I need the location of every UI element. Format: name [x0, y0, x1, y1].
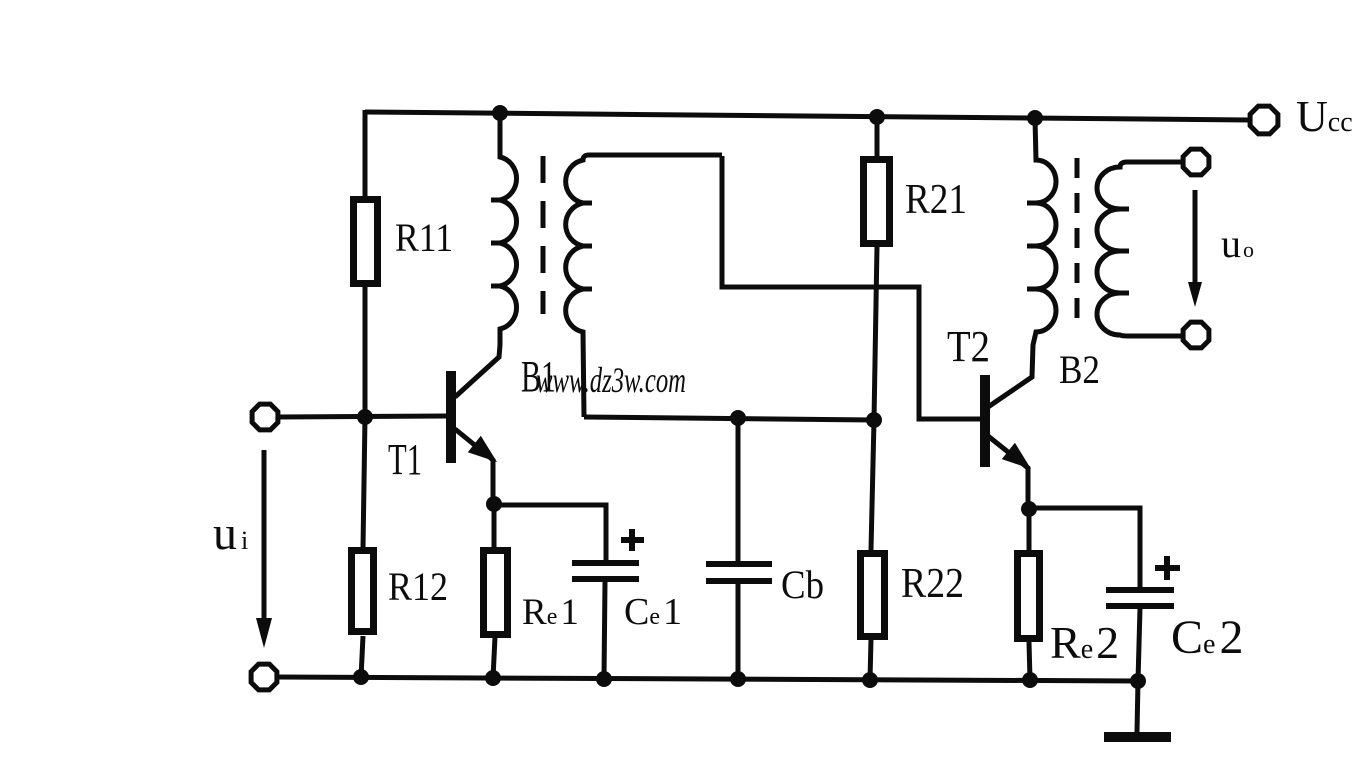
svg-text:uo: uo — [1221, 221, 1254, 266]
svg-text:B2: B2 — [1059, 347, 1100, 392]
svg-text:Ucc: Ucc — [1296, 92, 1353, 141]
svg-text:Re2: Re2 — [1050, 617, 1119, 668]
svg-text:Re1: Re1 — [522, 592, 579, 633]
svg-text:Ce1: Ce1 — [624, 591, 682, 633]
svg-text:www.dz3w.com: www.dz3w.com — [536, 360, 686, 400]
svg-text:Cb: Cb — [781, 562, 824, 607]
svg-text:R11: R11 — [395, 215, 453, 260]
svg-text:T1: T1 — [388, 435, 422, 484]
svg-text:R22: R22 — [901, 561, 964, 607]
svg-text:T2: T2 — [947, 322, 990, 371]
svg-text:R21: R21 — [905, 177, 967, 223]
svg-text:R12: R12 — [388, 564, 448, 609]
svg-text:ui: ui — [213, 507, 248, 560]
svg-text:Ce2: Ce2 — [1171, 611, 1243, 664]
